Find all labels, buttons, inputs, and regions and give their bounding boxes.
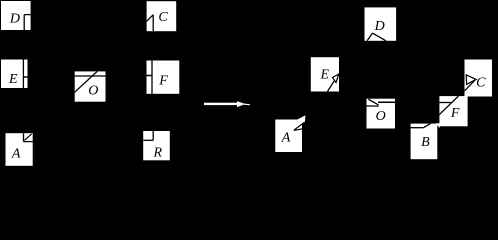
- svg-text:D: D: [9, 11, 20, 26]
- node R (left tree): [143, 131, 170, 160]
- node O (right tree): [367, 99, 396, 129]
- svg-text:O: O: [88, 83, 98, 98]
- wire in F (right): diagonal: [439, 96, 459, 115]
- node F (left tree): [147, 61, 180, 94]
- svg-text:C: C: [158, 10, 168, 25]
- svg-text:C: C: [476, 76, 486, 91]
- svg-text:E: E: [320, 67, 330, 82]
- wire through O (left): horizontal: [75, 75, 106, 77]
- wire in B (right): horizontal: [411, 127, 424, 129]
- svg-text:R: R: [153, 145, 163, 160]
- node E (right tree): [311, 57, 339, 91]
- arrowhead at C (right): [466, 75, 476, 85]
- node D (left tree): [1, 1, 31, 30]
- node A (left tree): [6, 133, 33, 166]
- wire through O (left): diagonal: [75, 71, 98, 92]
- wire in E (right): diagonal: [328, 81, 335, 92]
- node C (right tree): [465, 60, 493, 97]
- wire stub in D (left): horizontal: [24, 14, 30, 16]
- arrowhead at A (right): upper edge: [294, 122, 305, 130]
- wire divider in E (left): vertical: [22, 60, 24, 89]
- svg-text:A: A: [11, 147, 21, 162]
- wire stub in C (left): diagonal: [147, 15, 154, 22]
- node C (left tree): [147, 1, 177, 31]
- wire cell in A (left): diagonal: [25, 134, 32, 140]
- arrowhead between B and F (right): [436, 123, 440, 128]
- wire in D (right): right leg: [372, 33, 386, 41]
- arrow between trees: [204, 101, 250, 107]
- wire stub in E (left): horizontal: [23, 76, 27, 78]
- wire divider in F (left): vertical: [151, 61, 153, 94]
- node B (right tree): [411, 124, 438, 160]
- wire stub in D (left): vertical: [23, 15, 25, 30]
- wire stub in F (left): horizontal: [147, 75, 153, 77]
- svg-text:A: A: [281, 131, 291, 146]
- wire cell in A (left): vertical: [23, 133, 25, 141]
- arrowhead at A (right): lower edge: [294, 129, 303, 131]
- wire in O (right): upper diagonal: [368, 99, 378, 105]
- wire in B (right): diagonal: [423, 124, 430, 128]
- wire cell in A (left): horizontal: [24, 141, 33, 143]
- wire in D (right): left leg: [367, 33, 372, 41]
- svg-text:B: B: [421, 135, 430, 150]
- arrowhead at E (right): [333, 74, 339, 83]
- wire in C (right): diagonal: [465, 80, 476, 91]
- node O (left tree): [75, 71, 106, 101]
- node F (right tree): [439, 96, 467, 126]
- node E (left tree): [1, 60, 28, 89]
- svg-text:F: F: [450, 106, 460, 121]
- wire in O (right): horizontal: [378, 101, 395, 103]
- node A (right tree): [275, 120, 302, 153]
- wire cell in R (left): vertical: [152, 131, 154, 140]
- wire stub in C (left): vertical: [152, 15, 154, 32]
- svg-text:O: O: [376, 109, 386, 124]
- arrowhead at A (right): white fill: [294, 115, 306, 130]
- svg-text:F: F: [158, 73, 168, 88]
- svg-text:E: E: [8, 72, 18, 87]
- svg-text:D: D: [374, 19, 385, 34]
- wire cell in R (left): horizontal: [143, 139, 153, 141]
- node D (right tree): [365, 7, 397, 40]
- wire in F (right): horizontal: [439, 102, 451, 104]
- wire in O (right): lower diagonal: [367, 105, 379, 107]
